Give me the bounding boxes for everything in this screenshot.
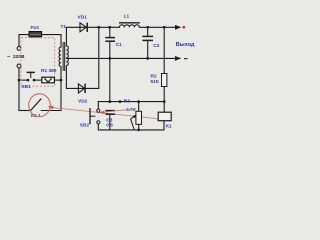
- wire SB2 top lead: [97, 102, 99, 109]
- wire R2 bottom to K1 box: [163, 87, 165, 113]
- push button SB2: [97, 109, 100, 112]
- node dot bottom rail at R2/K1: [163, 100, 166, 103]
- wire R3 leads: [138, 102, 140, 112]
- svg-text:SB2: SB2: [80, 123, 90, 129]
- wire C1 column: [109, 27, 111, 37]
- svg-text:220В: 220В: [13, 54, 25, 60]
- relay coil K1: [158, 112, 171, 121]
- wire K1.1 row left: [19, 110, 31, 112]
- wire bottom section top rail: [98, 101, 164, 103]
- wire transformer primary bottom lead: [60, 67, 62, 81]
- core: [62, 42, 64, 71]
- node dot top rail at VD2 riser: [97, 26, 100, 29]
- red ellipse around K1.1: [29, 94, 51, 117]
- wire SB2 bottom lead to bottom rail: [98, 124, 164, 130]
- wire top rail L1 to output arrow: [139, 26, 175, 28]
- svg-text:VD1: VD1: [78, 14, 88, 20]
- capacitor C1: [105, 37, 115, 39]
- svg-text:R2: R2: [151, 74, 157, 80]
- wire minus rail (center tap to output): [66, 57, 175, 59]
- output arrow minus: [175, 56, 181, 61]
- wire top rail VD1 to L1: [79, 26, 119, 28]
- node dot minus rail at C2: [146, 57, 149, 60]
- svg-text:Выход: Выход: [176, 42, 195, 48]
- wire K1.1 row right and up to junction: [41, 80, 61, 110]
- diode VD1: [80, 23, 86, 32]
- node dot top rail at C1: [108, 26, 111, 29]
- svg-text:FU1: FU1: [31, 25, 40, 30]
- wire K1 bottom routing with step: [163, 121, 165, 130]
- capacitor C2: [142, 35, 153, 37]
- primary winding: [59, 47, 61, 67]
- wire C3 bottom lead: [109, 115, 111, 130]
- svg-text:51К: 51К: [151, 79, 159, 85]
- wire R1 to primary-bottom junction: [54, 79, 61, 81]
- R3 rheostat arrow: [131, 116, 135, 130]
- node dot R1/primary junction: [60, 79, 63, 82]
- red dashed box: [21, 38, 55, 87]
- svg-text:C1: C1: [116, 42, 122, 48]
- inductor L1: [119, 25, 139, 28]
- node dot top rail at C2: [146, 26, 149, 29]
- wire fuse to transformer primary top: [42, 35, 61, 47]
- svg-text:R3: R3: [124, 98, 130, 104]
- diode VD2: [78, 84, 84, 93]
- node dot bottom rail at C3: [108, 100, 111, 103]
- wire C1 bottom to minus rail and down to bottom section: [109, 42, 111, 102]
- node dot bottom rail at R3 bottom: [137, 129, 140, 132]
- relay contact K1.1: [31, 99, 42, 111]
- red arrow to K1.1 ellipse: [50, 107, 158, 119]
- svg-text:R1 380: R1 380: [41, 68, 57, 74]
- svg-text:C2: C2: [153, 43, 159, 49]
- fuse FU1: [29, 32, 42, 38]
- red annotation arrow B to SB2: [102, 109, 136, 113]
- wire C2 leads: [147, 27, 149, 35]
- terminal X1 bottom circle: [17, 64, 21, 68]
- terminal X1 top circle: [17, 47, 21, 51]
- svg-text:T1: T1: [61, 24, 67, 30]
- wire VD2 cathode riser to top rail: [78, 27, 99, 88]
- svg-text:К1: К1: [166, 123, 172, 129]
- wire secondary top lead to top rail: [66, 27, 80, 46]
- red dot plus terminal: [183, 26, 186, 29]
- wire secondary bottom lead to VD2: [66, 66, 78, 88]
- svg-text:SB1: SB1: [21, 84, 31, 90]
- wire AC bottom terminal down to SB1 junction: [18, 68, 20, 111]
- trimmer resistor R3: [136, 111, 142, 124]
- minus dash: [184, 58, 188, 59]
- wire SB1 to R1: [35, 79, 42, 81]
- node dot minus rail at C1: [108, 57, 111, 60]
- switch SB1: [27, 79, 30, 82]
- node dot bottom rail extra: [119, 100, 122, 103]
- node dot SB1 junction: [18, 79, 21, 82]
- resistor R2: [162, 74, 167, 87]
- output arrow plus: [175, 25, 181, 30]
- wire R2 column from top rail: [163, 27, 165, 73]
- wire AC top: terminal to fuse: [19, 35, 29, 47]
- svg-text:L1: L1: [124, 14, 130, 20]
- node dot top rail at R2: [163, 26, 166, 29]
- resistor R1: [42, 77, 55, 83]
- secondary winding: [66, 46, 68, 66]
- wire SB1 row: [19, 79, 27, 81]
- node dot bottom rail at R3: [137, 100, 140, 103]
- svg-text:0.5: 0.5: [106, 122, 113, 128]
- capacitor C3: [105, 110, 115, 112]
- svg-text:VD2: VD2: [78, 98, 88, 104]
